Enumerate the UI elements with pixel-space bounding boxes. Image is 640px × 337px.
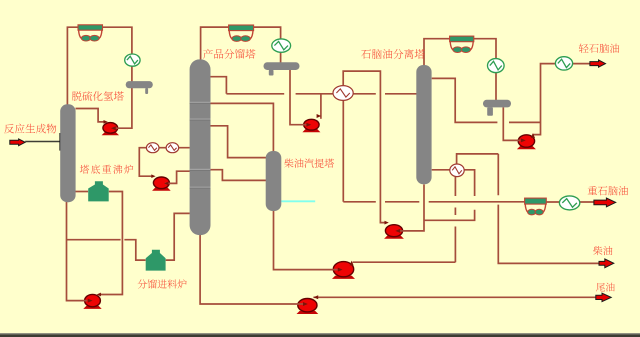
- pump P1 reflux pump of H2S stripper: [102, 123, 119, 136]
- wire column4 overhead to condenser E3 to exchanger to drum D3: [424, 39, 496, 100]
- wire drum D2 outlet to pump P2: [290, 70, 307, 125]
- wire column1 bottoms down to pump P4 suction: [67, 202, 88, 301]
- wire column1 to reboiler furnace F1: [76, 191, 89, 193]
- wire column4 side to exchanger E8: [424, 170, 474, 221]
- wire column2 top draw to exchanger E7 to column4 feed: [211, 77, 417, 94]
- wire column1 overhead to condenser E1 to exchanger to drum D1 to pump P1: [67, 27, 131, 128]
- arrow at pump P6 discharge: [350, 261, 354, 266]
- wire column2 pumparound through exchangers to pump P5: [139, 148, 190, 177]
- furnace F2 fractionator feed furnace 分馏进料炉: [146, 250, 166, 271]
- wire column2 draw to diesel stripper top: [211, 103, 274, 152]
- arrow at pump P5 inlet: [151, 174, 155, 178]
- pump P8 light naphtha reflux pump: [517, 135, 536, 150]
- wire column2 overhead to condenser E2 to exchanger to drum D2: [201, 27, 281, 63]
- wire furnace F2 outlet to column2 feed: [166, 213, 190, 260]
- wire steam line to diesel stripper: [281, 200, 315, 202]
- condenser E2 air cooler of column C2: [229, 25, 254, 41]
- arrow feed 反应生成物 inlet: [10, 139, 25, 146]
- column C2 section joint 2: [190, 119, 211, 120]
- node feed nozzle tick on column1: [59, 133, 61, 151]
- arrow at pump P1 discharge elbow: [104, 120, 108, 124]
- arrow at pump P5 center: [164, 182, 168, 186]
- wire pump P5 discharge to column2: [165, 171, 190, 183]
- arrow into pump P6 suction: [338, 268, 343, 272]
- column C1 H2S stripper 脱硫化氢塔: [60, 104, 75, 202]
- drum D3 overhead drum of column C4: [483, 100, 511, 116]
- condenser E1 air cooler of column C1: [78, 25, 103, 41]
- exchanger HX5 heavy naphtha product cooler: [559, 196, 579, 210]
- arrow at pump P3 discharge: [313, 295, 318, 299]
- arrow into pump P1 suction: [111, 126, 116, 130]
- wire tail oil line from pump P3: [313, 296, 595, 298]
- column C3 diesel stripper 柴油汽提塔: [266, 151, 282, 211]
- arrow into pump P4 suction: [88, 299, 93, 303]
- furnace F1 bottom reboiler 塔底重沸炉: [88, 181, 109, 201]
- pump P7 heavy naphtha pump: [384, 225, 404, 239]
- arrow at pump P8 discharge: [531, 133, 535, 138]
- arrow tail oil outlet: [596, 293, 611, 301]
- node label 轻石脑油 light naphtha: [579, 44, 619, 53]
- drum D1 reflux drum of column C1: [126, 81, 153, 94]
- arrow into pump P8 suction: [521, 138, 526, 142]
- node label 石脑油分离塔 naphtha splitter: [361, 49, 425, 59]
- arrow heavy naphtha outlet: [594, 198, 616, 207]
- arrow light naphtha outlet: [590, 60, 606, 67]
- node label 脱硫化氢塔 H2S stripper: [72, 91, 124, 101]
- wire column2 bottoms to pump P3: [200, 235, 304, 304]
- exchanger E7b pumparound exchanger: [166, 143, 179, 153]
- node label 柴油汽提塔 diesel stripper: [284, 159, 334, 168]
- cooler E6 heavy naphtha air cooler: [525, 198, 547, 215]
- column C2 section joint 4: [190, 187, 211, 188]
- bottom slide border: [0, 333, 640, 337]
- node label 反应生成物 reaction products: [4, 124, 56, 134]
- pump P3 fractionator bottoms pump: [297, 299, 319, 315]
- arrow diesel outlet: [599, 259, 614, 268]
- exchanger E7a pumparound exchanger: [146, 143, 159, 153]
- exchanger E5 feed-bottoms exchanger: [333, 86, 353, 101]
- exchanger HX2 fractionator overhead cooler: [272, 39, 291, 52]
- wire pump P7 discharge to exchanger E5 top: [343, 71, 385, 223]
- pump P6 diesel pump: [332, 262, 355, 279]
- pump P5 pumparound pump: [152, 177, 171, 191]
- exchanger HX4 light naphtha product cooler: [555, 57, 572, 70]
- wire diesel riser through exchanger E8: [454, 177, 456, 262]
- node label 产品分馏塔 product fractionator: [203, 49, 255, 59]
- node label 重石脑油 heavy naphtha: [588, 186, 628, 195]
- wire pump P8 discharge to light naphtha product: [532, 64, 589, 135]
- exchanger E8 diesel-side exchanger: [450, 164, 464, 177]
- pump P4 reboiler circulation pump: [83, 294, 101, 309]
- wire reactor effluent feed line: [25, 141, 60, 143]
- column C4 naphtha splitter 石脑油分离塔: [416, 65, 431, 184]
- node label 柴油 diesel: [593, 246, 612, 255]
- arrow at pump P2 discharge: [317, 114, 322, 118]
- wire drum D3 outlet to pump P8: [503, 107, 520, 140]
- exchanger HX3 drum D3 inlet cooler: [488, 59, 505, 73]
- arrow at pump P4 top: [97, 293, 101, 297]
- column C2 section joint 3: [190, 169, 211, 170]
- wire stripper bottoms to pump P6: [274, 211, 338, 270]
- arrow into pump P2 suction: [306, 123, 311, 127]
- pump P2 fractionator overhead pump: [302, 119, 320, 132]
- wire pump P2 discharge riser: [320, 94, 322, 119]
- arrow at pump P7 discharge elbow: [385, 221, 389, 225]
- node label 分馏进料炉 fractionator feed furnace: [138, 279, 187, 288]
- wire column2 to stripper upper return: [211, 126, 267, 158]
- wire furnace F1 outlet down to pump P4 top: [100, 192, 122, 295]
- exchanger HX1 overhead trim cooler: [125, 54, 140, 66]
- wire pump P6 discharge to exchanger E8: [353, 261, 456, 263]
- wire exchanger E8 top to diesel product line: [457, 154, 600, 264]
- arrow into pump P3 suction: [303, 302, 308, 306]
- node label 塔底重沸炉 bottom reboiler furnace: [80, 165, 133, 174]
- wire exchanger E5 bottom to heavy naphtha line: [342, 100, 344, 202]
- condenser E3 air cooler of column C4: [450, 36, 474, 52]
- wire heavy naphtha line to cooler E6 and exchanger: [343, 201, 594, 203]
- wire column1 top reflux line via pump P1: [76, 109, 104, 122]
- column C2 product fractionator 产品分馏塔: [190, 59, 211, 235]
- wire column4 side draw to riser junction: [432, 78, 541, 122]
- wire column1 bottoms branch to feed furnace F2: [67, 240, 146, 260]
- wire column2 to stripper lower line: [211, 170, 267, 181]
- arrow into pump P7 suction: [395, 229, 400, 233]
- column C2 section joint 1: [190, 102, 211, 103]
- node label 尾油 tail oil: [596, 283, 615, 292]
- drum D2 overhead drum of column C2: [264, 62, 300, 75]
- wire column4 bottoms to pump P7: [400, 184, 425, 231]
